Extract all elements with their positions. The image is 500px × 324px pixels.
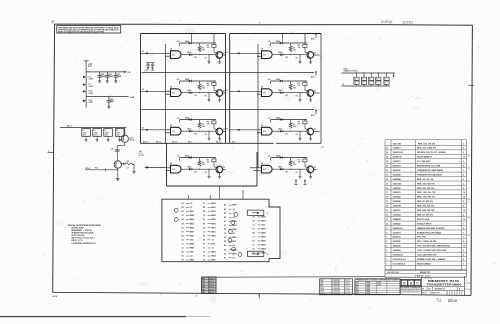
svg-text:16: 16 xyxy=(463,219,465,221)
svg-text:6.8MF: 6.8MF xyxy=(117,76,123,78)
svg-text:21: 21 xyxy=(386,174,388,176)
svg-text:1300.002: 1300.002 xyxy=(393,183,403,185)
svg-text:MB06: MB06 xyxy=(211,203,216,205)
svg-text:CHK: CHK xyxy=(320,283,323,285)
svg-text:C1: C1 xyxy=(83,130,85,132)
svg-text:MB05: MB05 xyxy=(190,248,195,250)
svg-text:2501913: 2501913 xyxy=(393,166,402,168)
svg-text:R1: R1 xyxy=(354,79,356,81)
svg-text:.01MF: .01MF xyxy=(88,86,93,88)
svg-text:F2: F2 xyxy=(224,253,226,255)
svg-text:12: 12 xyxy=(386,214,388,216)
svg-text:D662: D662 xyxy=(356,289,359,291)
svg-text:1300376: 1300376 xyxy=(393,192,402,194)
svg-text:A1: A1 xyxy=(253,248,255,251)
svg-text:F2: F2 xyxy=(226,90,228,92)
svg-text:D2: D2 xyxy=(203,260,205,262)
svg-text:-15: -15 xyxy=(232,209,235,211)
svg-text:R2: R2 xyxy=(253,221,255,223)
svg-text:100V: 100V xyxy=(116,135,119,137)
svg-text:R1: R1 xyxy=(362,79,364,81)
svg-text:1: 1 xyxy=(463,170,464,172)
svg-text:17: 17 xyxy=(386,192,388,194)
svg-text:15: 15 xyxy=(376,83,378,85)
svg-text:5-12-70: 5-12-70 xyxy=(345,285,350,287)
svg-text:BS-M660-0-1: BS-M660-0-1 xyxy=(435,289,446,291)
svg-text:9.07-00913-4: 9.07-00913-4 xyxy=(393,262,406,265)
svg-text:B2: B2 xyxy=(182,235,184,237)
svg-text:C1: C1 xyxy=(253,225,255,227)
svg-text:R2: R2 xyxy=(203,211,205,213)
svg-text:4: 4 xyxy=(463,249,464,252)
svg-text:D2: D2 xyxy=(224,237,226,239)
svg-text:.01MF: .01MF xyxy=(88,102,93,104)
svg-text:1304834: 1304834 xyxy=(393,218,402,221)
svg-text:6.8MF: 6.8MF xyxy=(108,76,114,78)
svg-text:25: 25 xyxy=(386,157,388,159)
svg-text:.01MF: .01MF xyxy=(88,78,93,80)
svg-text:J2: J2 xyxy=(267,254,269,256)
svg-text:E2: E2 xyxy=(142,128,144,130)
svg-text:MB02: MB02 xyxy=(190,260,195,262)
svg-text:M1: M1 xyxy=(203,207,205,209)
svg-text:1: 1 xyxy=(386,263,387,265)
svg-text:REV: REV xyxy=(202,278,205,280)
svg-text:SPLIT LUGS: SPLIT LUGS xyxy=(417,219,430,221)
svg-text:MB07: MB07 xyxy=(232,205,237,207)
svg-text:1209390: 1209390 xyxy=(393,246,402,248)
svg-text:RES. 100. 1W. 5%: RES. 100. 1W. 5% xyxy=(418,143,435,145)
svg-text:DEC. CONN. 18 PIN: DEC. CONN. 18 PIN xyxy=(417,241,437,243)
svg-text:T.L: T.L xyxy=(436,298,442,303)
svg-text:H1: H1 xyxy=(182,256,184,258)
svg-text:27: 27 xyxy=(386,148,388,150)
svg-text:BD0: BD0 xyxy=(311,76,314,78)
svg-text:-15: -15 xyxy=(190,207,193,209)
svg-text:A1: A1 xyxy=(253,216,255,219)
svg-text:1500049: 1500049 xyxy=(393,178,402,181)
svg-text:R.GROVER: R.GROVER xyxy=(333,280,340,282)
svg-text:R.GROVER: R.GROVER xyxy=(333,291,340,293)
svg-text:MB00: MB00 xyxy=(190,227,195,229)
svg-text:15: 15 xyxy=(386,201,388,203)
svg-text:5-12-70: 5-12-70 xyxy=(345,288,350,290)
svg-text:1100017: 1100017 xyxy=(393,148,402,150)
svg-text:autop: autop xyxy=(381,19,393,24)
svg-text:R1: R1 xyxy=(369,79,371,81)
svg-text:1300386: 1300386 xyxy=(393,201,402,203)
svg-text:5C5: 5C5 xyxy=(52,21,55,23)
svg-text:1105375: 1105375 xyxy=(393,161,402,163)
svg-text:PIN. .093: PIN. .093 xyxy=(417,237,427,239)
svg-text:N2: N2 xyxy=(203,223,205,225)
svg-text:23: 23 xyxy=(386,166,388,168)
svg-text:4: 4 xyxy=(463,187,464,190)
svg-text:RES. 1K. 5%. 1W: RES. 1K. 5%. 1W xyxy=(417,179,434,181)
svg-text:MB02: MB02 xyxy=(232,253,237,255)
svg-text:-15: -15 xyxy=(342,84,345,86)
svg-text:MB00: MB00 xyxy=(211,252,216,254)
svg-text:2100103: 2100103 xyxy=(393,237,402,239)
svg-text:MF 100V: MF 100V xyxy=(139,155,145,157)
svg-text:1501387: 1501387 xyxy=(393,170,402,172)
svg-text:11: 11 xyxy=(386,219,388,221)
svg-text:F2: F2 xyxy=(203,252,205,254)
svg-text:MB 06-2: MB 06-2 xyxy=(172,142,178,144)
svg-text:9.06-0913-0-0: 9.06-0913-0-0 xyxy=(393,259,407,261)
svg-text:MB01: MB01 xyxy=(211,207,216,209)
svg-text:MB00: MB00 xyxy=(232,221,237,223)
svg-text:F2: F2 xyxy=(226,128,228,130)
svg-text:B 5 M: B 5 M xyxy=(53,296,58,298)
svg-text:910000319: 910000319 xyxy=(393,255,404,257)
svg-text:R1: R1 xyxy=(384,79,386,81)
svg-text:16: 16 xyxy=(463,157,465,159)
svg-text:REV: REV xyxy=(202,281,205,283)
svg-text:15: 15 xyxy=(369,83,371,85)
svg-text:E2: E2 xyxy=(142,89,144,91)
svg-text:MB09: MB09 xyxy=(261,241,266,243)
svg-text:SCREW PHILLIPS HEAD: SCREW PHILLIPS HEAD xyxy=(417,231,442,234)
svg-text:8: 8 xyxy=(463,152,464,154)
svg-text:100V: 100V xyxy=(83,135,86,137)
svg-text:A1: A1 xyxy=(182,226,184,229)
svg-text:D662: D662 xyxy=(356,291,359,293)
svg-text:+10: +10 xyxy=(232,257,235,259)
svg-text:MB 05-2: MB 05-2 xyxy=(156,142,162,144)
svg-text:15: 15 xyxy=(384,83,386,85)
svg-text:REV: REV xyxy=(202,284,205,286)
svg-text:REV: REV xyxy=(202,292,205,294)
svg-text:MB05: MB05 xyxy=(211,235,216,237)
svg-text:MB09: MB09 xyxy=(261,221,266,223)
svg-text:CON. 6800 MFD 35V: CON. 6800 MFD 35V xyxy=(417,255,437,257)
svg-text:D2: D2 xyxy=(224,245,226,247)
svg-text:3: 3 xyxy=(386,255,387,257)
svg-text:5: 5 xyxy=(386,246,387,248)
svg-text:D2: D2 xyxy=(203,227,205,229)
svg-text:1300751: 1300751 xyxy=(393,210,402,212)
svg-text:MB02: MB02 xyxy=(190,223,195,225)
svg-text:MB05: MB05 xyxy=(232,225,237,227)
svg-text:1300365: 1300365 xyxy=(393,197,402,199)
svg-text:MB05: MB05 xyxy=(211,223,216,225)
svg-text:L2: L2 xyxy=(203,215,205,217)
svg-text:2: 2 xyxy=(48,150,49,152)
svg-text:S1: S1 xyxy=(182,215,184,217)
svg-text:8: 8 xyxy=(386,232,387,234)
svg-text:TRANSISTOR 1440 DEC8: TRANSISTOR 1440 DEC8 xyxy=(417,173,443,176)
svg-text:22: 22 xyxy=(386,170,388,172)
svg-text:REV: REV xyxy=(202,287,205,289)
svg-text:20: 20 xyxy=(386,179,388,181)
svg-text:MB00: MB00 xyxy=(211,219,216,221)
svg-text:J2: J2 xyxy=(182,248,184,250)
svg-text:MB07: MB07 xyxy=(211,227,216,229)
svg-text:+10: +10 xyxy=(232,245,235,247)
svg-text:10: 10 xyxy=(386,223,388,225)
svg-text:M1: M1 xyxy=(182,219,184,221)
svg-text:DELAY ASSLY: DELAY ASSLY xyxy=(417,262,432,265)
svg-text:D.C. 664 662C: D.C. 664 662C xyxy=(417,160,431,163)
svg-text:J2: J2 xyxy=(203,231,205,233)
svg-text:Q17: Q17 xyxy=(130,137,133,139)
svg-text:MB03: MB03 xyxy=(232,249,237,251)
svg-text:1203382: 1203382 xyxy=(393,241,402,243)
svg-text:19: 19 xyxy=(386,183,388,185)
svg-text:MB07: MB07 xyxy=(211,211,216,213)
svg-text:8: 8 xyxy=(463,255,464,257)
svg-text:MB03: MB03 xyxy=(211,231,216,233)
svg-text:1300788: 1300788 xyxy=(393,206,402,208)
svg-text:RES. 250. 5W. 5%: RES. 250. 5W. 5% xyxy=(417,188,434,190)
svg-text:MB04: MB04 xyxy=(211,255,216,258)
svg-text:B2: B2 xyxy=(182,223,184,225)
svg-text:C3: C3 xyxy=(105,130,107,132)
svg-text:LANGFORD+NORWOOD,24: LANGFORD+NORWOOD,24 xyxy=(72,242,97,245)
svg-text:DIST: DIST xyxy=(422,293,425,295)
svg-text:100V: 100V xyxy=(105,135,108,137)
svg-text:3009B: 3009B xyxy=(377,282,381,284)
svg-text:.01MF: .01MF xyxy=(83,132,87,134)
svg-text:15: 15 xyxy=(354,83,356,85)
svg-text:R.GROVER: R.GROVER xyxy=(333,285,340,287)
svg-text:BD0: BD0 xyxy=(311,115,314,117)
svg-text:TRANSISTOR .2894-2B669: TRANSISTOR .2894-2B669 xyxy=(417,169,444,172)
svg-text:5-12-70: 5-12-70 xyxy=(345,280,350,282)
svg-text:18: 18 xyxy=(386,188,388,190)
svg-text:F2: F2 xyxy=(203,244,205,246)
svg-text:16: 16 xyxy=(463,192,465,194)
svg-text:MB10: MB10 xyxy=(261,245,266,247)
svg-text:-15: -15 xyxy=(211,248,214,250)
svg-text:E1: E1 xyxy=(253,253,255,255)
svg-text:RES. 680. 5W. 5W: RES. 680. 5W. 5W xyxy=(417,210,434,212)
svg-text:P1: P1 xyxy=(224,233,226,235)
svg-text:Blue: Blue xyxy=(448,298,458,303)
svg-text:13: 13 xyxy=(386,210,388,212)
svg-text:R2: R2 xyxy=(203,235,205,237)
svg-text:+10B: +10B xyxy=(129,97,135,99)
svg-text:SHEET 1 OF 1: SHEET 1 OF 1 xyxy=(431,293,441,295)
svg-text:150: 150 xyxy=(127,167,130,169)
svg-text:R2: R2 xyxy=(224,205,226,207)
svg-text:24: 24 xyxy=(386,160,388,163)
svg-text:R2: R2 xyxy=(182,211,184,213)
svg-text:MB07: MB07 xyxy=(190,211,195,213)
svg-text:D2: D2 xyxy=(224,249,226,251)
svg-text:1209929: 1209929 xyxy=(393,250,402,252)
svg-text:M660/P101: M660/P101 xyxy=(420,272,431,274)
svg-text:9: 9 xyxy=(386,228,387,230)
svg-text:B2: B2 xyxy=(182,207,184,209)
svg-text:R.GROVER: R.GROVER xyxy=(333,283,340,285)
svg-text:INLAY WRAP-P: INLAY WRAP-P xyxy=(417,156,433,159)
svg-text:D662: D662 xyxy=(356,282,359,284)
svg-text:RES. 1K0. 5W. 5%: RES. 1K0. 5W. 5% xyxy=(417,183,435,185)
svg-text:HANDLE MOLDED PLASTIC: HANDLE MOLDED PLASTIC xyxy=(417,227,445,230)
svg-text:8: 8 xyxy=(463,179,464,181)
svg-text:C2D1: C2D1 xyxy=(145,70,149,72)
svg-text:1309014-0: 1309014-0 xyxy=(393,227,404,230)
svg-text:MB 07: MB 07 xyxy=(188,142,192,144)
svg-text:E2: E2 xyxy=(142,51,144,53)
svg-text:.01MF: .01MF xyxy=(88,93,93,95)
svg-text:M1: M1 xyxy=(182,252,184,254)
svg-text:1100114-01: 1100114-01 xyxy=(393,151,405,154)
svg-text:MB01: MB01 xyxy=(232,237,237,239)
svg-text:N2: N2 xyxy=(182,260,184,262)
svg-text:DIODES .FLIP FLOP - 662664: DIODES .FLIP FLOP - 662664 xyxy=(417,151,446,154)
svg-text:D2: D2 xyxy=(224,213,226,215)
svg-text:TRANSMITTER M660: TRANSMITTER M660 xyxy=(426,283,462,286)
svg-text:F2: F2 xyxy=(253,241,255,243)
svg-text:5-12-70: 5-12-70 xyxy=(345,283,350,285)
svg-text:J1: J1 xyxy=(267,213,269,215)
svg-text:5-12-70: 5-12-70 xyxy=(345,293,350,295)
svg-text:R.GROVER: R.GROVER xyxy=(333,293,340,295)
svg-text:1: 1 xyxy=(463,263,464,265)
svg-text:-15: -15 xyxy=(232,213,235,215)
svg-text:RESISTANCE 15.0 OHM: RESISTANCE 15.0 OHM xyxy=(417,165,441,168)
svg-text:M909: M909 xyxy=(344,69,348,71)
svg-text:+10: +10 xyxy=(232,233,235,235)
svg-text:TRU. SOCKET DBL SDR W/GOLD: TRU. SOCKET DBL SDR W/GOLD xyxy=(417,246,450,248)
svg-text:MB06: MB06 xyxy=(211,215,216,217)
svg-text:RES. 390. 5W. 5%: RES. 390. 5W. 5% xyxy=(417,206,434,208)
svg-text:RES. 82. 1W. 5%: RES. 82. 1W. 5% xyxy=(417,214,433,216)
svg-text:PARTS LIST: PARTS LIST xyxy=(415,275,431,278)
svg-text:11000731: 11000731 xyxy=(393,157,403,159)
svg-text:R.GROVER: R.GROVER xyxy=(333,288,340,290)
svg-text:MB01: MB01 xyxy=(190,235,195,237)
svg-text:DRN: DRN xyxy=(320,280,323,282)
svg-text:A1: A1 xyxy=(224,220,226,223)
svg-text:D662: D662 xyxy=(356,287,359,289)
svg-text:RES. 25. 5W. 5%: RES. 25. 5W. 5% xyxy=(417,201,433,203)
svg-text:B2: B2 xyxy=(253,233,255,235)
svg-text:CON. .01 MFD 100V 20% DISC: CON. .01 MFD 100V 20% DISC xyxy=(417,250,447,252)
svg-text:MB09: MB09 xyxy=(261,229,266,231)
svg-text:REV: REV xyxy=(202,289,205,291)
svg-text:7: 7 xyxy=(386,237,387,239)
svg-text:1310073: 1310073 xyxy=(393,232,402,234)
svg-text:MB10: MB10 xyxy=(261,217,266,219)
svg-text:EYELET SPLIT: EYELET SPLIT xyxy=(417,223,432,225)
svg-text:P1: P1 xyxy=(224,225,226,227)
svg-text:2: 2 xyxy=(386,259,387,261)
svg-text:6: 6 xyxy=(386,241,387,243)
svg-text:MC+3: MC+3 xyxy=(85,168,90,170)
svg-text:15: 15 xyxy=(362,83,364,85)
svg-text:MB 10-2: MB 10-2 xyxy=(216,142,222,144)
svg-text:+10: +10 xyxy=(232,217,235,219)
svg-text:2: 2 xyxy=(463,143,464,145)
svg-text:8: 8 xyxy=(463,206,464,208)
svg-text:B2: B2 xyxy=(224,209,226,211)
svg-text:D2: D2 xyxy=(182,239,184,241)
svg-text:MB09: MB09 xyxy=(261,249,266,251)
svg-text:MB06: MB06 xyxy=(190,219,195,221)
svg-text:101: 101 xyxy=(52,23,55,25)
svg-text:12151: 12151 xyxy=(402,19,414,24)
svg-text:MB08: MB08 xyxy=(261,253,266,255)
svg-text:.01MF: .01MF xyxy=(116,132,120,134)
svg-text:C1: C1 xyxy=(182,244,184,246)
svg-text:D2: D2 xyxy=(182,203,184,205)
svg-text:PROJ: PROJ xyxy=(320,288,324,290)
svg-text:26: 26 xyxy=(386,152,388,154)
svg-text:MB07: MB07 xyxy=(190,231,195,233)
svg-text:1305042: 1305042 xyxy=(393,222,402,225)
svg-text:14: 14 xyxy=(386,205,388,208)
svg-text:100V: 100V xyxy=(94,135,97,137)
svg-text:1: 1 xyxy=(463,223,464,225)
svg-text:+10: +10 xyxy=(190,256,193,258)
svg-text:L2: L2 xyxy=(253,245,255,247)
svg-text:B2: B2 xyxy=(203,239,205,241)
svg-text:MB08: MB08 xyxy=(261,237,266,239)
svg-text:1500048: 1500048 xyxy=(393,173,402,176)
svg-text:.01MF: .01MF xyxy=(105,132,109,134)
svg-text:ENG: ENG xyxy=(320,285,323,287)
svg-text:DEC NO: DEC NO xyxy=(393,143,401,145)
svg-text:E1: E1 xyxy=(253,229,255,231)
svg-text:1: 1 xyxy=(463,161,464,163)
svg-text:RECD 1 770: RECD 1 770 xyxy=(72,240,84,242)
svg-text:RES. 100. 1/4W. 5%: RES. 100. 1/4W. 5% xyxy=(417,147,436,150)
svg-text:RES. 1.5K. 5%. TW: RES. 1.5K. 5%. TW xyxy=(417,192,435,194)
svg-text:BD0: BD0 xyxy=(311,38,314,40)
svg-text:C2: C2 xyxy=(94,130,96,132)
svg-text:MB06: MB06 xyxy=(190,244,195,246)
svg-text:E1: E1 xyxy=(182,231,184,233)
svg-text:2: 2 xyxy=(463,214,464,216)
svg-text:-15: -15 xyxy=(211,239,214,241)
svg-text:MB08: MB08 xyxy=(261,233,266,235)
svg-text:SIGNAL PLUG 664 + 664B40: SIGNAL PLUG 664 + 664B40 xyxy=(417,258,446,261)
svg-text:C5 .01: C5 .01 xyxy=(139,153,143,155)
svg-text:1302584: 1302584 xyxy=(393,213,402,216)
svg-text:R2: R2 xyxy=(224,241,226,243)
svg-text:R1: R1 xyxy=(376,79,378,81)
svg-text:P1: P1 xyxy=(224,257,226,259)
svg-text:D2: D2 xyxy=(224,229,226,231)
svg-text:MB 11: MB 11 xyxy=(232,142,236,144)
svg-text:MB04: MB04 xyxy=(190,214,195,217)
svg-text:C1: C1 xyxy=(253,237,255,239)
svg-text:MB01: MB01 xyxy=(211,260,216,262)
svg-text:D662: D662 xyxy=(356,284,359,286)
svg-text:C30: C30 xyxy=(111,149,114,151)
svg-text:16: 16 xyxy=(463,197,465,199)
svg-text:5-12-70: 5-12-70 xyxy=(345,291,350,293)
svg-text:H1: H1 xyxy=(203,256,205,258)
svg-text:16: 16 xyxy=(463,210,465,212)
svg-text:1300292: 1300292 xyxy=(393,188,402,190)
svg-text:S1: S1 xyxy=(203,203,205,205)
svg-text:3009B: 3009B xyxy=(377,284,381,286)
svg-text:8: 8 xyxy=(463,174,464,176)
svg-text:RES. .750. 5W. 5%: RES. .750. 5W. 5% xyxy=(417,197,435,199)
svg-text:-15: -15 xyxy=(190,203,193,205)
svg-text:1: 1 xyxy=(463,201,464,203)
svg-text:S1: S1 xyxy=(203,248,205,250)
svg-text:F2: F2 xyxy=(226,52,228,54)
svg-text:16: 16 xyxy=(463,246,465,248)
svg-text:E1: E1 xyxy=(203,219,205,221)
svg-text:.01MF: .01MF xyxy=(94,132,98,134)
